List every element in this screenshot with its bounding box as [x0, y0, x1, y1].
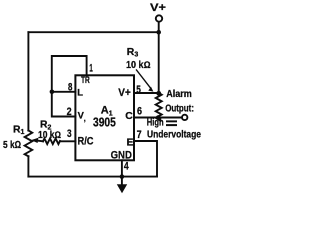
svg-text:8: 8 [68, 81, 72, 93]
svg-text:L: L [77, 87, 83, 98]
svg-text:High: High [147, 118, 164, 129]
svg-text:R3: R3 [127, 47, 139, 59]
svg-text:2: 2 [67, 106, 72, 118]
svg-text:R1: R1 [13, 124, 25, 136]
svg-text:6: 6 [137, 106, 142, 118]
svg-text:C: C [125, 111, 133, 122]
svg-text:10 kΩ: 10 kΩ [38, 130, 61, 141]
svg-text:Alarm: Alarm [166, 89, 192, 100]
svg-text:3905: 3905 [93, 116, 116, 130]
svg-text:3: 3 [67, 128, 72, 140]
svg-text:V+: V+ [118, 87, 131, 99]
svg-text:Undervoltage: Undervoltage [147, 130, 201, 141]
svg-text:4: 4 [124, 161, 129, 173]
svg-text:TR: TR [81, 75, 90, 85]
svg-text:5: 5 [136, 84, 141, 96]
svg-text:Output:: Output: [165, 103, 194, 114]
svg-text:1: 1 [89, 62, 92, 74]
svg-text:V,: V, [78, 111, 86, 123]
svg-text:7: 7 [137, 129, 142, 141]
svg-text:R/C: R/C [78, 136, 94, 148]
svg-text:5 kΩ: 5 kΩ [3, 140, 21, 151]
svg-text:10 kΩ: 10 kΩ [126, 60, 151, 71]
svg-text:GND: GND [111, 150, 132, 162]
svg-text:E: E [127, 137, 134, 148]
svg-text:V+: V+ [150, 2, 166, 14]
